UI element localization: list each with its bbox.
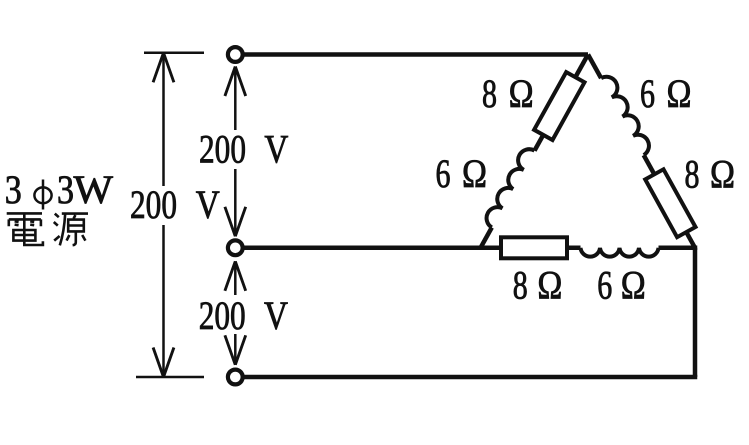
arrowhead up, overall 200 V dimension [153, 53, 174, 83]
resistor 8 ohm, delta left branch [534, 72, 584, 140]
wire delta right branch lower segment [644, 155, 695, 248]
label background top 200 V [194, 130, 292, 169]
terminal circle, bottom phase of source [228, 370, 243, 385]
kanji GEN (source) of label DENGEN [54, 214, 88, 246]
label 200 V (bottom span) [199, 293, 288, 338]
label 200 V (top span) [199, 127, 288, 172]
svg-text:Ω: Ω [509, 71, 534, 116]
label background left 200 V [126, 186, 223, 225]
arrowhead up, top span 200 V [225, 67, 246, 97]
label background bottom 200 V [194, 295, 292, 334]
svg-text:6: 6 [640, 71, 655, 116]
dimension tick top (200 V overall, upper end) [144, 52, 204, 55]
svg-text:8: 8 [685, 152, 700, 197]
value label 8 ohm, bottom resistor [513, 262, 563, 307]
svg-text:Ω: Ω [667, 71, 692, 116]
svg-text:8: 8 [482, 71, 497, 116]
dimension line 200 V between top and middle phase [234, 67, 237, 237]
terminal circle, middle phase of source [228, 240, 243, 255]
svg-text:3: 3 [57, 167, 74, 212]
value label 8 ohm, left-branch resistor [482, 71, 534, 116]
svg-text:Ω: Ω [537, 262, 562, 307]
wire middle phase (source middle terminal to delta bottom-left vertex) [243, 246, 581, 251]
resistor 8 ohm, delta right branch [645, 169, 695, 237]
wire delta right branch upper segment [588, 55, 601, 79]
arrowhead up, bottom span 200 V [225, 261, 246, 291]
svg-text:200: 200 [130, 182, 177, 227]
arrowhead down, overall 200 V dimension [153, 348, 174, 378]
kanji DEN (electric) of label DENGEN [7, 213, 43, 245]
svg-text:Ω: Ω [621, 262, 646, 307]
label 200 V (overall, left) [130, 182, 220, 227]
value label 6 ohm, right-branch inductor [640, 71, 692, 116]
svg-text:V: V [264, 293, 288, 338]
wire top phase (source top terminal to delta apex) [243, 52, 588, 57]
svg-text:6: 6 [597, 262, 612, 307]
value label 6 ohm, bottom inductor [597, 262, 646, 307]
dimension tick bottom (200 V overall, lower end) [136, 376, 204, 379]
svg-text:6: 6 [436, 151, 451, 196]
svg-text:V: V [264, 127, 288, 172]
dimension line 200 V between middle and bottom phase [234, 261, 237, 365]
arrowhead down, top span 200 V [225, 207, 246, 237]
wire right riser (delta bottom-right vertex down to bottom phase) [693, 248, 698, 377]
svg-text:8: 8 [513, 262, 528, 307]
source label 3-phi-3W [5, 167, 113, 212]
svg-text:200: 200 [199, 127, 246, 172]
wire delta left branch lower segment [481, 228, 492, 248]
value label 6 ohm, left-branch inductor [436, 151, 488, 196]
inductor 6 ohm, delta bottom side [581, 248, 659, 257]
terminal circle, top phase of source [228, 47, 243, 62]
svg-text:V: V [196, 182, 220, 227]
resistor 8 ohm, delta bottom side [501, 237, 567, 258]
inductor 6 ohm, delta left branch [487, 149, 535, 227]
inductor 6 ohm, delta right branch [601, 77, 649, 155]
wire delta bottom side right segment [659, 246, 698, 251]
svg-text:200: 200 [199, 293, 246, 338]
svg-text:Ω: Ω [462, 151, 487, 196]
svg-text:Ω: Ω [710, 152, 735, 197]
svg-text:W: W [74, 167, 114, 212]
svg-text:3: 3 [5, 167, 22, 212]
wire bottom phase (source bottom terminal to right riser) [244, 375, 698, 380]
dimension line 200 V overall (left, top-to-bottom phase) [162, 53, 165, 377]
arrowhead down, bottom span 200 V [225, 335, 246, 365]
value label 8 ohm, right-branch resistor [685, 152, 736, 197]
wire delta left branch upper segment [535, 55, 589, 151]
